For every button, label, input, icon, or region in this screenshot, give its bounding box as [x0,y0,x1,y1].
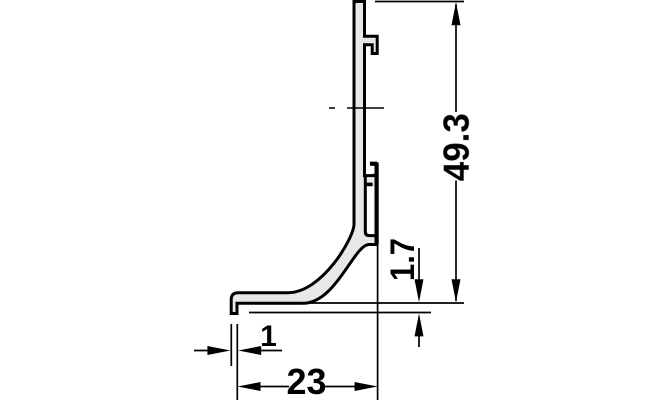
arrowhead 23 right [355,382,378,391]
white slit inside middle hook [366,166,374,174]
arrowhead 1 right [238,346,261,355]
svg-text:1: 1 [260,320,277,353]
extension line foot bottom [310,302,464,304]
centerline through web [347,107,384,109]
dimension line 23 left segment [255,386,289,388]
arrowhead 49.3 bottom [452,279,461,302]
arrowhead 23 left [238,382,261,391]
slot air channel (white cut-out right of web) [367,187,376,234]
dimension 1.7 upper arrow stem [418,248,420,292]
slot top arm stroke [365,183,372,187]
slot left wall and bottom arm stroke [365,175,377,236]
svg-text:1.7: 1.7 [384,238,422,281]
arrowhead 1.7 lower [415,313,424,336]
extension line lip bottom [249,312,431,314]
svg-text:23: 23 [286,361,326,400]
middle hook arm left overhang [370,162,377,166]
dimension 1 left arrow stem [194,350,212,352]
dimension 1 right arrow stem [257,350,282,352]
dimension 1.7 lower arrow stem [418,323,420,347]
svg-text:49.3: 49.3 [436,113,477,181]
arrowhead 1 left [207,346,230,355]
profile body (aluminium extrusion cross-section) [231,2,377,314]
extension line 23 right [377,246,379,400]
arrowhead 1.7 upper [415,279,424,302]
arrowhead 49.3 top [452,2,461,25]
dimension line 23 right segment [324,386,358,388]
extension line top (profile top face) [375,1,464,3]
dimension line 49.3 lower segment [455,181,457,302]
dimension line 49.3 upper segment [455,4,457,112]
extension line lip left [230,324,232,366]
centerline dash [329,107,335,109]
middle hook outer wall (thicker) [375,164,379,244]
extension line lip right / 23 left [236,324,238,400]
